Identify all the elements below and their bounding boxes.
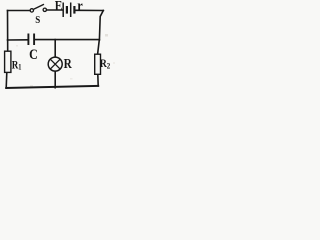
battery E r [63, 3, 74, 18]
wire switch to battery [47, 9, 63, 11]
wire right vertical [99, 11, 103, 41]
paper speckles [16, 34, 115, 87]
wire left upper [7, 11, 9, 52]
svg-text:R: R [64, 56, 73, 71]
capacitor C plates [28, 34, 34, 46]
svg-text:S: S [35, 15, 40, 27]
svg-text:r: r [77, 0, 82, 14]
svg-text:C: C [29, 46, 38, 62]
wire middle horizontal left of capacitor [8, 39, 28, 41]
svg-text:E: E [55, 0, 63, 14]
wire battery to top-right corner [76, 9, 104, 11]
wire middle horizontal right of capacitor [35, 39, 99, 41]
resistor R2 box [95, 54, 101, 74]
wire lamp branch lower [54, 72, 56, 88]
resistor R1 box [5, 51, 11, 72]
wire R2 bottom lead [97, 74, 99, 86]
wire R2 top lead [98, 40, 100, 54]
wire lamp branch upper [54, 40, 56, 57]
wire left lower [5, 72, 8, 88]
lamp R (circle with X) [48, 57, 62, 71]
wire top-left segment [8, 10, 31, 12]
switch S [30, 4, 46, 12]
wire bottom [6, 86, 98, 88]
